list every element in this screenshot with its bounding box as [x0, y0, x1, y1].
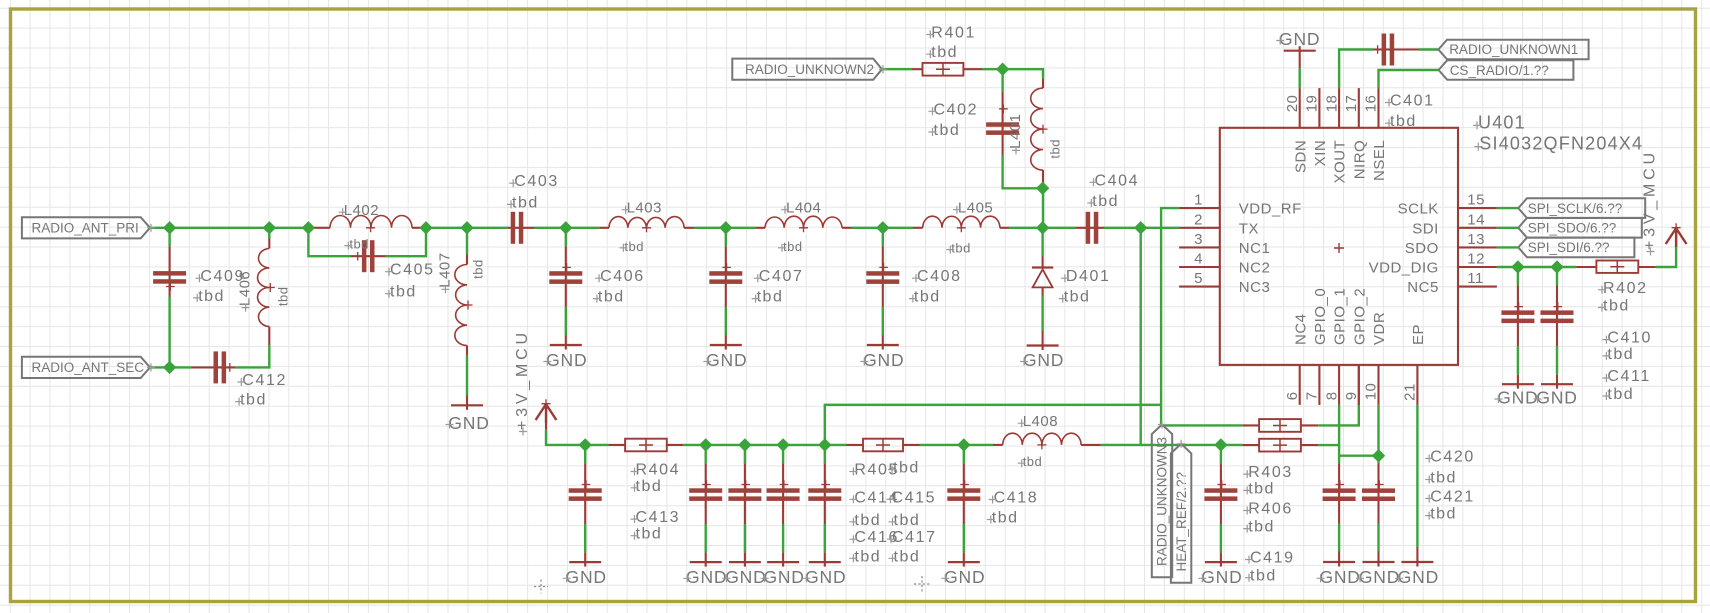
- svg-text:tbd: tbd: [893, 460, 920, 477]
- svg-text:1: 1: [1194, 192, 1203, 209]
- svg-text:CS_RADIO/1.??: CS_RADIO/1.??: [1450, 63, 1549, 78]
- svg-text:XOUT: XOUT: [1332, 140, 1349, 184]
- svg-text:R401: R401: [931, 25, 976, 42]
- svg-text:tbd: tbd: [1607, 386, 1634, 403]
- svg-text:RADIO_ANT_SEC: RADIO_ANT_SEC: [32, 360, 145, 375]
- svg-text:tbd: tbd: [276, 287, 291, 307]
- svg-text:NSEL: NSEL: [1371, 140, 1388, 181]
- svg-text:11: 11: [1467, 270, 1484, 287]
- svg-text:GND: GND: [1359, 567, 1400, 587]
- svg-text:C403: C403: [514, 173, 559, 190]
- svg-text:C402: C402: [934, 101, 979, 118]
- svg-text:D401: D401: [1066, 268, 1111, 285]
- svg-text:GND: GND: [805, 567, 846, 587]
- svg-text:tbd: tbd: [636, 478, 663, 495]
- svg-text:GPIO_0: GPIO_0: [1312, 288, 1329, 345]
- svg-text:tbd: tbd: [1092, 193, 1119, 210]
- svg-text:tbd: tbd: [390, 284, 417, 301]
- svg-text:U401: U401: [1478, 112, 1526, 132]
- svg-text:15: 15: [1467, 192, 1485, 209]
- svg-text:GND: GND: [706, 350, 747, 370]
- svg-text:GND: GND: [944, 567, 985, 587]
- svg-text:6: 6: [1284, 391, 1301, 400]
- svg-text:tbd: tbd: [636, 526, 663, 543]
- svg-text:XIN: XIN: [1312, 140, 1329, 167]
- svg-text:tbd: tbd: [470, 259, 485, 279]
- svg-text:GND: GND: [1023, 350, 1064, 370]
- svg-text:C405: C405: [390, 262, 435, 279]
- svg-text:L406: L406: [237, 271, 254, 306]
- svg-text:GPIO_1: GPIO_1: [1332, 288, 1349, 345]
- svg-text:C410: C410: [1607, 330, 1652, 347]
- svg-text:RADIO_UNKNOWN2: RADIO_UNKNOWN2: [745, 62, 874, 77]
- svg-text:+3V_MCU: +3V_MCU: [1642, 149, 1659, 250]
- svg-text:tbd: tbd: [1390, 113, 1417, 130]
- svg-text:L405: L405: [958, 200, 993, 217]
- svg-text:VDR: VDR: [1371, 312, 1388, 345]
- svg-text:tbd: tbd: [894, 548, 921, 565]
- svg-text:NC4: NC4: [1292, 313, 1309, 345]
- svg-text:C412: C412: [242, 372, 287, 389]
- svg-text:EP: EP: [1410, 324, 1427, 345]
- svg-text:RADIO_ANT_PRI: RADIO_ANT_PRI: [32, 221, 139, 236]
- svg-text:GND: GND: [1536, 388, 1577, 408]
- svg-text:SCLK: SCLK: [1398, 201, 1439, 218]
- svg-text:12: 12: [1467, 251, 1485, 268]
- svg-text:L404: L404: [786, 200, 821, 217]
- svg-text:NC3: NC3: [1239, 279, 1271, 296]
- svg-text:NC5: NC5: [1407, 279, 1439, 296]
- svg-text:L407: L407: [436, 252, 453, 287]
- svg-text:5: 5: [1194, 270, 1203, 287]
- svg-text:tbd: tbd: [240, 392, 267, 409]
- svg-text:tbd: tbd: [1430, 470, 1457, 487]
- svg-text:16: 16: [1363, 95, 1380, 113]
- svg-text:tbd: tbd: [1064, 289, 1091, 306]
- svg-text:tbd: tbd: [198, 288, 225, 305]
- svg-text:GND: GND: [1319, 567, 1360, 587]
- svg-text:GND: GND: [448, 413, 489, 433]
- svg-text:tbd: tbd: [854, 548, 881, 565]
- svg-text:17: 17: [1343, 95, 1360, 113]
- svg-text:GND: GND: [686, 567, 727, 587]
- svg-text:tbd: tbd: [349, 237, 369, 252]
- svg-text:tbd: tbd: [1048, 139, 1063, 159]
- svg-text:L408: L408: [1023, 413, 1058, 430]
- svg-text:SPI_SDI/6.??: SPI_SDI/6.??: [1528, 240, 1610, 255]
- svg-text:tbd: tbd: [894, 512, 921, 529]
- svg-text:C411: C411: [1607, 368, 1650, 385]
- svg-text:21: 21: [1402, 383, 1419, 401]
- svg-text:SDO: SDO: [1405, 240, 1439, 257]
- svg-text:tbd: tbd: [1248, 519, 1275, 536]
- svg-text:GND: GND: [566, 567, 607, 587]
- svg-text:7: 7: [1304, 391, 1321, 400]
- svg-text:19: 19: [1304, 95, 1321, 113]
- svg-text:8: 8: [1323, 391, 1340, 400]
- svg-text:C419: C419: [1250, 550, 1295, 567]
- svg-text:R404: R404: [636, 462, 681, 479]
- svg-text:SDI: SDI: [1412, 220, 1439, 237]
- svg-text:GPIO_2: GPIO_2: [1351, 288, 1368, 345]
- svg-text:tbd: tbd: [951, 241, 971, 256]
- svg-text:tbd: tbd: [1603, 298, 1630, 315]
- svg-text:tbd: tbd: [512, 194, 539, 211]
- svg-text:C418: C418: [994, 490, 1039, 507]
- svg-text:NIRQ: NIRQ: [1351, 140, 1368, 180]
- svg-text:HEAT_REF/2.??: HEAT_REF/2.??: [1174, 472, 1189, 572]
- svg-text:NC1: NC1: [1239, 240, 1271, 257]
- svg-text:18: 18: [1323, 95, 1340, 113]
- svg-text:NC2: NC2: [1239, 260, 1271, 277]
- svg-text:C420: C420: [1430, 449, 1475, 466]
- svg-text:tbd: tbd: [757, 289, 784, 306]
- svg-text:C406: C406: [600, 268, 645, 285]
- svg-text:3: 3: [1194, 231, 1203, 248]
- svg-text:tbd: tbd: [1250, 568, 1277, 585]
- svg-text:tbd: tbd: [934, 122, 961, 139]
- svg-text:13: 13: [1467, 231, 1485, 248]
- svg-text:SI4032QFN204X4: SI4032QFN204X4: [1479, 134, 1643, 154]
- svg-text:tbd: tbd: [992, 510, 1019, 527]
- svg-text:tbd: tbd: [914, 289, 941, 306]
- svg-text:tbd: tbd: [931, 44, 958, 61]
- svg-text:GND: GND: [1201, 567, 1242, 587]
- svg-text:GND: GND: [1497, 388, 1538, 408]
- svg-text:2: 2: [1194, 211, 1203, 228]
- svg-text:C415: C415: [892, 489, 937, 506]
- svg-text:SPI_SCLK/6.??: SPI_SCLK/6.??: [1528, 201, 1623, 216]
- svg-text:C413: C413: [636, 509, 681, 526]
- svg-text:tbd: tbd: [1023, 454, 1043, 469]
- svg-text:RADIO_UNKNOWN1: RADIO_UNKNOWN1: [1449, 42, 1578, 57]
- svg-text:GND: GND: [863, 350, 904, 370]
- svg-text:tbd: tbd: [598, 289, 625, 306]
- svg-text:L401: L401: [1007, 114, 1024, 149]
- svg-text:GND: GND: [1398, 567, 1439, 587]
- svg-text:R402: R402: [1603, 280, 1648, 297]
- svg-text:VDD_RF: VDD_RF: [1239, 201, 1302, 218]
- svg-text:9: 9: [1343, 391, 1360, 400]
- svg-text:tbd: tbd: [783, 239, 803, 254]
- svg-text:C404: C404: [1095, 172, 1140, 189]
- svg-text:C417: C417: [892, 529, 937, 546]
- svg-text:10: 10: [1363, 383, 1380, 401]
- svg-text:GND: GND: [725, 567, 766, 587]
- svg-text:SPI_SDO/6.??: SPI_SDO/6.??: [1528, 221, 1617, 236]
- svg-text:C408: C408: [917, 268, 962, 285]
- svg-text:L403: L403: [627, 200, 662, 217]
- svg-text:L402: L402: [344, 202, 379, 219]
- svg-text:tbd: tbd: [624, 239, 644, 254]
- svg-text:20: 20: [1284, 95, 1301, 113]
- svg-text:R403: R403: [1248, 464, 1293, 481]
- svg-text:4: 4: [1194, 251, 1203, 268]
- svg-text:tbd: tbd: [1430, 506, 1457, 523]
- svg-text:+3V_MCU: +3V_MCU: [514, 329, 531, 430]
- svg-text:tbd: tbd: [1248, 480, 1275, 497]
- svg-text:14: 14: [1467, 211, 1485, 228]
- svg-text:GND: GND: [763, 567, 804, 587]
- svg-text:R406: R406: [1248, 501, 1293, 518]
- svg-text:C407: C407: [759, 268, 804, 285]
- svg-text:tbd: tbd: [854, 512, 881, 529]
- svg-text:VDD_DIG: VDD_DIG: [1369, 260, 1439, 277]
- svg-text:SDN: SDN: [1292, 140, 1309, 173]
- svg-text:tbd: tbd: [1607, 346, 1634, 363]
- svg-text:C421: C421: [1430, 489, 1475, 506]
- svg-text:RADIO_UNKNOWN3: RADIO_UNKNOWN3: [1155, 437, 1170, 566]
- svg-text:GND: GND: [1279, 29, 1320, 49]
- svg-text:GND: GND: [546, 350, 587, 370]
- svg-text:C401: C401: [1390, 93, 1435, 110]
- svg-text:TX: TX: [1239, 220, 1259, 237]
